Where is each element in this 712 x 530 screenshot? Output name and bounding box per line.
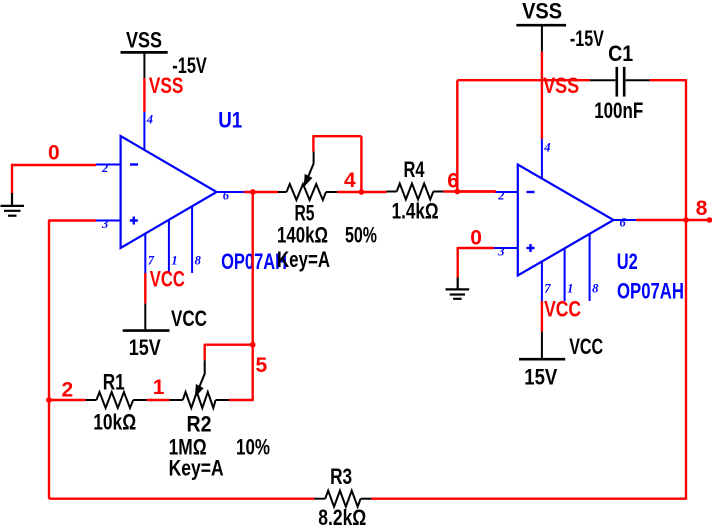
wire R2 wiper loop horizontal [205, 344, 253, 346]
wire VSS net to U1 pin 4 [143, 78, 145, 112]
svg-text:6: 6 [620, 216, 627, 230]
svg-text:VSS: VSS [149, 73, 184, 98]
VCC power symbol (below U2) [519, 332, 603, 390]
wire U1 output to R5 [244, 191, 278, 193]
svg-text:1: 1 [153, 376, 165, 399]
svg-text:4: 4 [146, 113, 153, 127]
svg-text:2: 2 [101, 161, 108, 175]
wire U2 inverting input red stub [457, 190, 496, 192]
wire VSS net to U2 pin 4 [541, 52, 543, 139]
svg-text:R1: R1 [103, 370, 125, 395]
svg-text:1.4kΩ: 1.4kΩ [392, 199, 439, 224]
U1 pin 3 lead [96, 217, 121, 231]
wire R5 wiper loop horizontal [313, 135, 361, 137]
VSS power symbol (top left) [121, 28, 208, 78]
svg-text:VCC: VCC [544, 297, 581, 322]
svg-text:7: 7 [148, 254, 155, 268]
svg-text:3: 3 [497, 244, 504, 258]
svg-text:50%: 50% [345, 222, 377, 247]
U1 pin 1 lead [169, 220, 178, 273]
U1 pin 6 output lead [217, 189, 244, 203]
wire U1 non-inverting input horizontal [49, 219, 96, 221]
junction U1 output [250, 189, 256, 195]
svg-text:6: 6 [223, 189, 230, 203]
wire node 0 (right) to U2 non-inverting input [458, 247, 494, 249]
wire R2 wiper loop vertical [203, 344, 205, 361]
svg-text:VCC: VCC [150, 267, 185, 292]
wire R4 to U2 inverting input [443, 190, 496, 192]
svg-text:2: 2 [62, 379, 74, 402]
svg-text:100nF: 100nF [594, 98, 643, 123]
svg-text:8: 8 [592, 282, 599, 296]
ground (left, near U1) [1, 193, 25, 216]
svg-text:2: 2 [497, 188, 504, 202]
resistor R1 [86, 392, 147, 408]
svg-text:R4: R4 [404, 157, 426, 182]
svg-text:10%: 10% [236, 435, 270, 460]
junction node 8 [683, 217, 689, 223]
U2 pin 6 output lead [614, 216, 637, 230]
resistor R4 [387, 184, 444, 200]
junction node 2 [46, 397, 52, 403]
op-amp U1 [121, 136, 217, 248]
svg-text:VSS: VSS [522, 0, 562, 23]
svg-text:C1: C1 [608, 41, 633, 66]
svg-text:Key=A: Key=A [169, 456, 224, 481]
R5 wiper arrowhead [305, 175, 312, 185]
svg-text:VSS: VSS [543, 73, 579, 98]
svg-text:15V: 15V [524, 364, 557, 389]
wire left vertical (node 2 branch down to bottom) [48, 220, 50, 499]
wire node 6 vertical up to C1 [456, 80, 458, 191]
svg-text:U2: U2 [617, 249, 638, 274]
node 8 output terminal dot [707, 217, 712, 223]
U1 pin 7 lead [145, 234, 155, 273]
potentiometer R2 [169, 360, 229, 408]
wire node 0 (right) vertical [457, 247, 459, 278]
wire VCC net to U2 pin 7 [541, 301, 543, 332]
svg-text:10kΩ: 10kΩ [93, 410, 136, 435]
potentiometer R5 [278, 152, 337, 201]
capacitor C1 [590, 67, 650, 97]
wire node0 horizontal to U1 inverting input [11, 164, 96, 166]
U2 pin 1 lead [565, 248, 574, 301]
wire right vertical C1 down to node 8 [685, 79, 687, 220]
VSS power symbol (top right) [516, 0, 604, 52]
U2 pin 2 lead [494, 188, 518, 202]
resistor R3 [314, 491, 371, 507]
svg-text:Key=A: Key=A [277, 247, 330, 272]
wire node0 vertical to ground [11, 164, 13, 194]
svg-text:5: 5 [256, 354, 268, 377]
wire R5 wiper loop right vertical [360, 136, 362, 192]
svg-text:VCC: VCC [569, 334, 603, 359]
svg-text:VCC: VCC [171, 306, 207, 331]
wire right vertical feedback (node 8 down) [685, 220, 687, 500]
svg-text:0: 0 [48, 142, 60, 165]
svg-text:OP07AH: OP07AH [617, 278, 684, 303]
wire bottom left long run [49, 498, 314, 500]
svg-text:0: 0 [470, 226, 482, 249]
U1 pin 2 lead [96, 161, 121, 175]
U1 pin 4 lead [144, 111, 153, 151]
wire C1 right to right vertical [650, 79, 686, 81]
op-amp U2 [518, 165, 614, 276]
U1 pin 8 lead [192, 206, 202, 273]
VCC power symbol (below U1) [123, 303, 207, 359]
junction node 5 [250, 342, 256, 348]
U2 pin 8 lead [590, 234, 600, 301]
ground (right, near U2) [446, 278, 470, 299]
svg-text:VSS: VSS [126, 28, 162, 53]
svg-text:R3: R3 [330, 464, 352, 489]
svg-text:1: 1 [171, 254, 177, 268]
wire bottom right long run [371, 498, 686, 500]
svg-text:4: 4 [344, 169, 356, 192]
wire node 2 to R1 left [49, 399, 86, 401]
svg-text:U1: U1 [218, 108, 242, 133]
svg-text:4: 4 [543, 141, 550, 155]
svg-text:8.2kΩ: 8.2kΩ [318, 505, 366, 530]
junction node 6 [454, 189, 460, 195]
wire VCC net to U1 pin 7 [144, 273, 146, 303]
svg-text:140kΩ: 140kΩ [277, 222, 328, 247]
U2 pin 4 lead [542, 139, 551, 179]
wire feedback vertical from U1 output down to R2 [251, 192, 253, 400]
svg-text:-15V: -15V [570, 26, 604, 51]
R2 wiper arrowhead [196, 385, 203, 395]
wire node 1 between R1 and R2 [147, 399, 169, 401]
svg-text:7: 7 [544, 282, 551, 296]
wire R2 right terminal to feedback vertical [229, 399, 254, 401]
wire top horizontal to C1 left [457, 79, 590, 81]
wire U2 output to node 8 [636, 219, 709, 221]
svg-text:1: 1 [567, 282, 573, 296]
svg-text:8: 8 [696, 197, 708, 220]
junction node 4 [359, 189, 365, 195]
U2 pin 7 lead [542, 262, 552, 301]
svg-text:15V: 15V [129, 335, 161, 360]
svg-text:8: 8 [195, 254, 202, 268]
U2 pin 3 lead [494, 244, 518, 258]
wire R5 to R4 [337, 191, 386, 193]
svg-text:R2: R2 [187, 412, 212, 437]
wire R5 wiper loop left vertical [312, 135, 314, 151]
svg-text:3: 3 [101, 217, 108, 231]
